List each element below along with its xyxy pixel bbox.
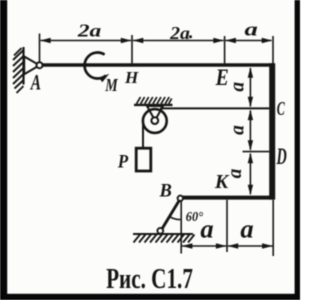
vertical beam right [269,63,275,199]
stray dot [189,35,192,38]
extension tick right corner [272,36,274,63]
moment M arrowhead [99,71,111,82]
wall line at A [22,47,24,85]
vertical dimension a (top-C) [249,68,251,107]
svg-text:a: a [228,82,249,92]
ceiling line [134,104,173,106]
dimension line a (E-corner) [226,40,272,42]
svg-text:P: P [117,151,128,172]
svg-text:K: K [214,171,230,193]
vertical dimension a (C-D) [249,111,251,150]
scan border bottom [0,294,300,300]
extension line above A [39,34,41,63]
pulley bracket triangle [147,106,163,121]
extension line below K [226,200,228,252]
moment M arc [85,53,106,79]
bottom dimension a (K-corner) [228,245,273,247]
wall hatching at A [13,48,24,93]
svg-text:a: a [240,214,253,244]
bottom dimension a (B-K) [182,245,226,247]
extension line below B [180,201,182,254]
pin circle at A [37,62,43,68]
extension tick E [224,36,226,63]
bottom beam B-K-corner [181,196,275,200]
pulley wheel [143,109,167,133]
D tick line [243,151,270,153]
scan border left [0,0,7,300]
svg-text:B: B [159,182,172,202]
svg-text:2a: 2a [169,24,190,44]
svg-text:C: C [277,97,286,120]
extension tick H [131,35,133,63]
ground hatching [134,235,195,243]
rope horizontal to C [160,107,269,109]
pin circle at B [178,196,183,201]
extension line below corner [272,200,274,256]
ceiling hatching (pulley support) [137,97,172,104]
dimension line 2a (H-E) [133,40,224,42]
lower pin circle [157,228,163,234]
angle arc 60 [169,216,180,219]
vertical dimension a (D-K) [249,154,251,195]
pulley axle [151,117,158,124]
svg-text:Рис. С1.7: Рис. С1.7 [106,263,193,295]
scan border right [295,0,300,300]
ground line [133,233,193,235]
svg-text:M: M [104,77,118,96]
dimension line 2a (A-H) [41,40,132,42]
svg-text:a: a [200,214,213,244]
svg-text:a: a [245,18,258,39]
svg-text:a: a [228,125,249,135]
rope vertical to load [142,121,144,149]
top beam AH E [40,63,274,67]
pin support triangle at A [24,57,39,75]
svg-text:2a: 2a [77,20,102,41]
svg-text:A: A [30,71,41,95]
load P rectangle [136,148,151,171]
svg-text:H: H [124,68,139,87]
strut rod B [161,200,180,231]
svg-text:D: D [276,145,287,170]
